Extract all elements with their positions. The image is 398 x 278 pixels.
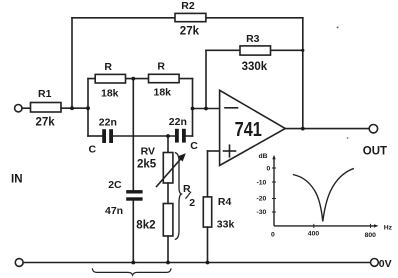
svg-text:0: 0 (267, 165, 271, 172)
svg-text:47n: 47n (105, 205, 123, 217)
svg-text:C: C (190, 140, 198, 152)
svg-text:18k: 18k (154, 87, 172, 99)
svg-text:Hz: Hz (384, 225, 393, 232)
svg-text:33k: 33k (217, 218, 235, 230)
svg-text:-30: -30 (257, 209, 267, 216)
svg-text:R1: R1 (38, 88, 52, 100)
svg-text:R4: R4 (218, 196, 232, 208)
svg-text:R: R (157, 60, 165, 72)
svg-text:R2: R2 (181, 0, 195, 12)
svg-text:-20: -20 (257, 196, 267, 203)
svg-text:22n: 22n (99, 116, 117, 128)
svg-text:IN: IN (11, 173, 23, 185)
svg-text:OUT: OUT (363, 146, 387, 158)
svg-text:-10: -10 (257, 180, 267, 187)
svg-text:RV: RV (141, 146, 155, 158)
svg-text:R: R (104, 61, 112, 73)
svg-text:0: 0 (271, 231, 275, 238)
svg-text:800: 800 (365, 232, 377, 239)
svg-text:R3: R3 (246, 33, 260, 45)
svg-text:741: 741 (235, 119, 262, 141)
svg-text:8k2: 8k2 (136, 219, 155, 231)
svg-text:330k: 330k (242, 61, 268, 73)
svg-text:dB: dB (259, 153, 268, 160)
svg-text:400: 400 (308, 231, 320, 238)
svg-text:27k: 27k (180, 25, 200, 37)
svg-text:22n: 22n (169, 116, 187, 128)
svg-text:27k: 27k (36, 116, 56, 128)
svg-text:0V: 0V (379, 258, 392, 270)
svg-text:2C: 2C (108, 179, 122, 191)
svg-text:2: 2 (189, 197, 195, 209)
svg-text:C: C (89, 143, 97, 155)
svg-text:18k: 18k (101, 88, 119, 100)
svg-text:2k5: 2k5 (137, 159, 157, 171)
